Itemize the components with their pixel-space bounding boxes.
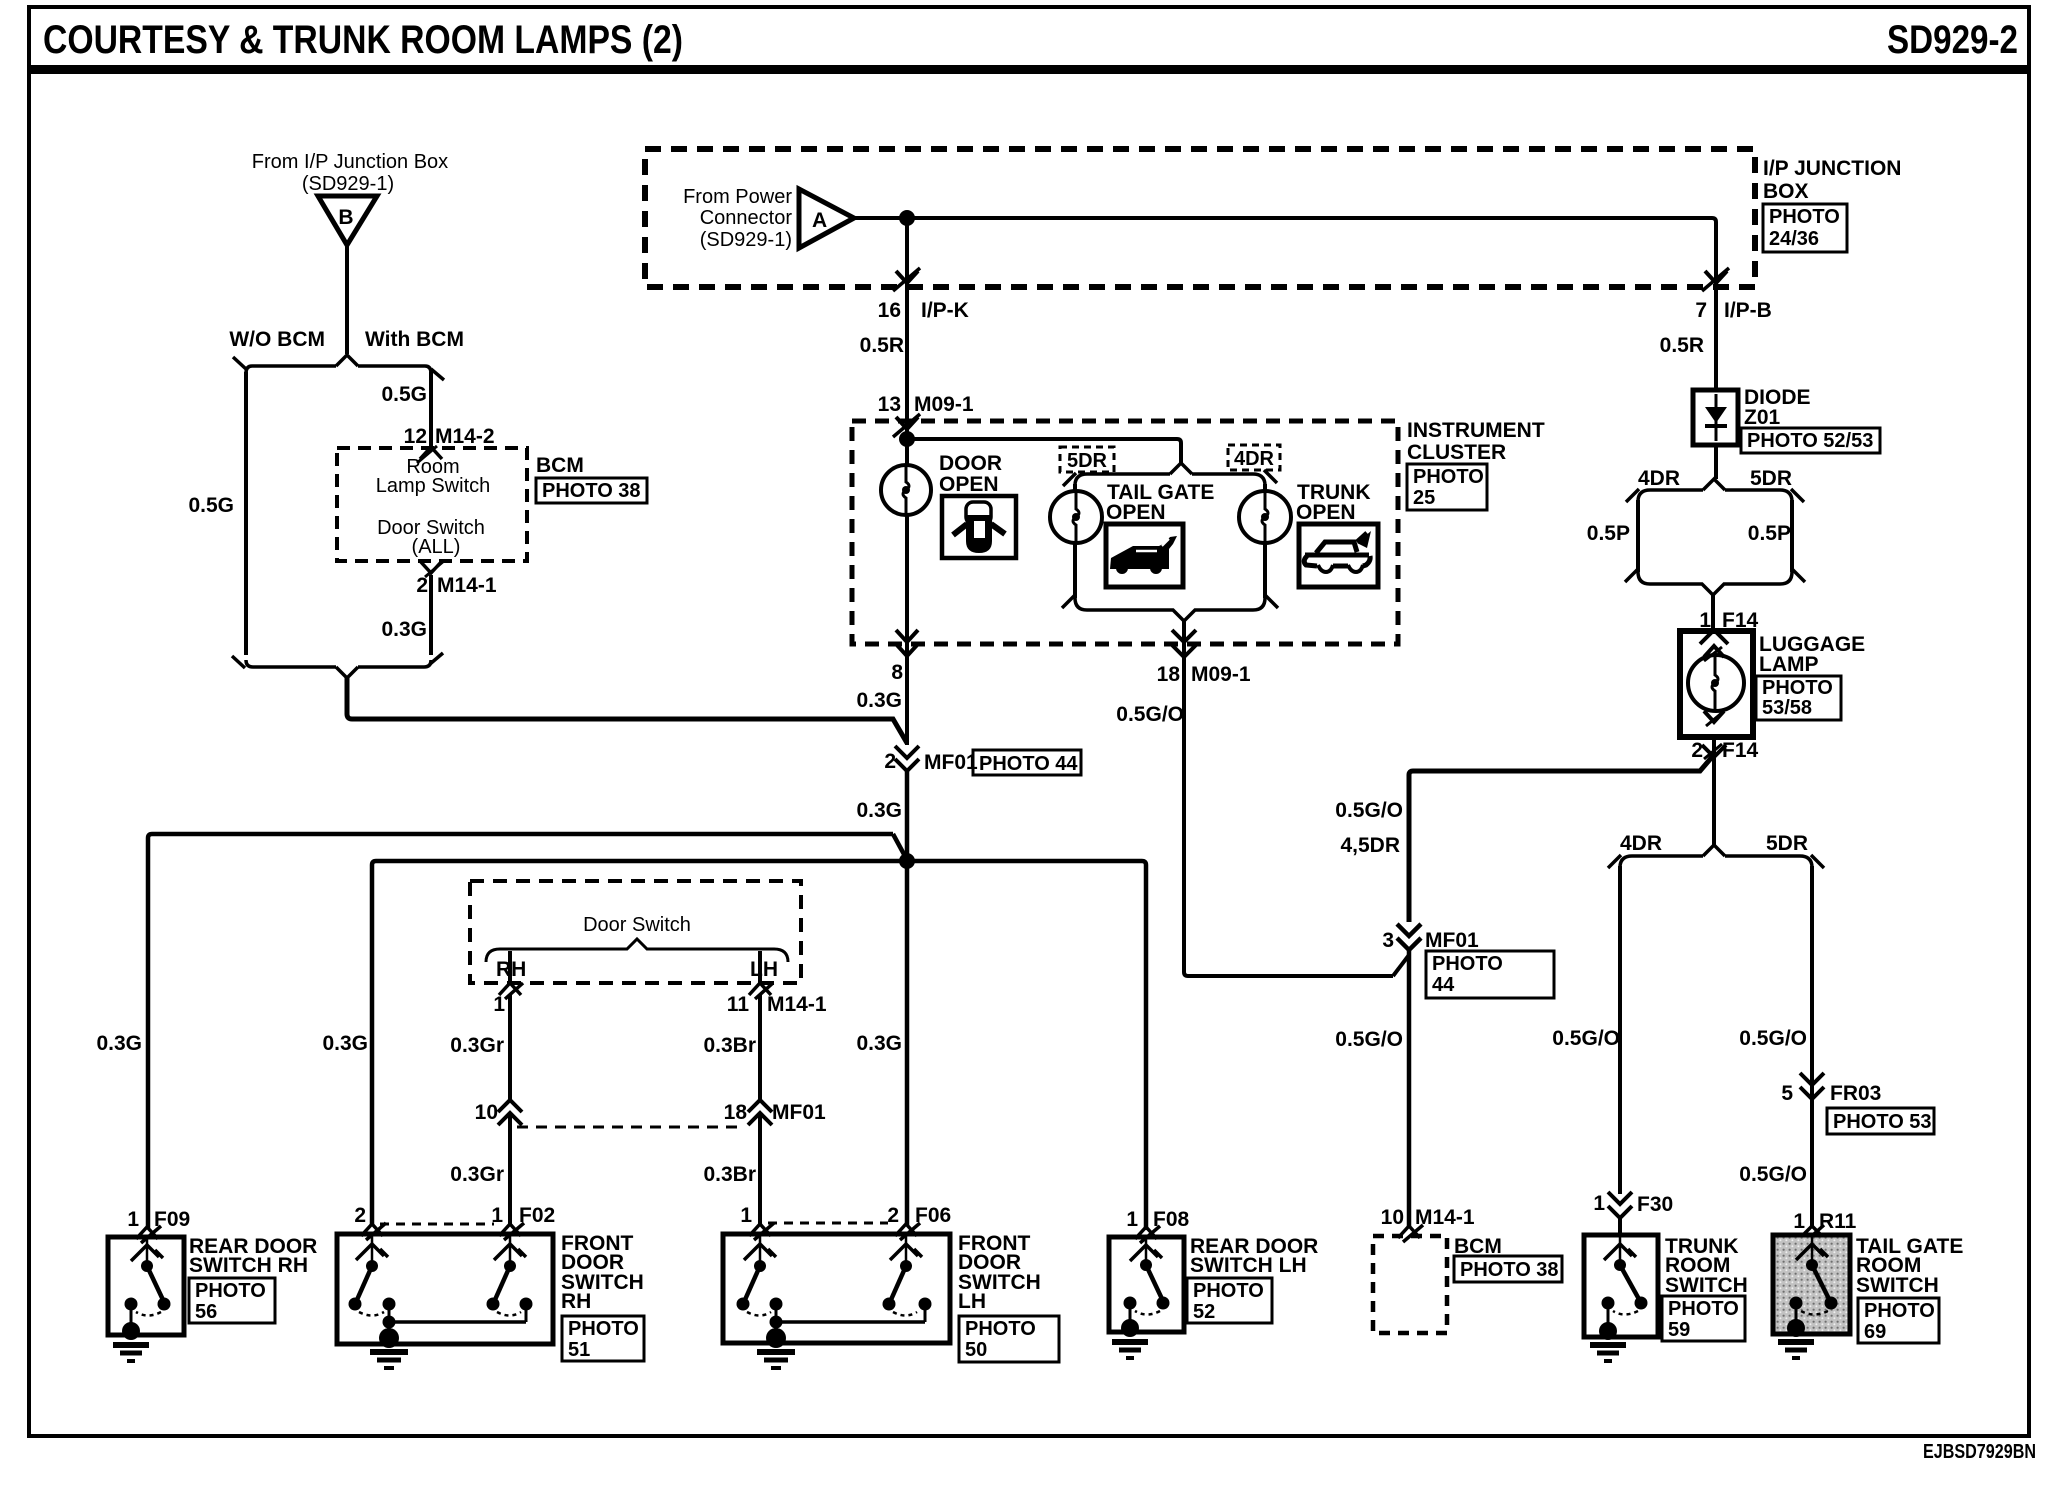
svg-text:SWITCH LH: SWITCH LH [1190,1254,1307,1277]
svg-text:I/P-K: I/P-K [921,299,969,322]
svg-text:0.5G/O: 0.5G/O [1116,703,1184,726]
svg-text:M14-1: M14-1 [437,574,497,597]
svg-text:44: 44 [1432,974,1455,996]
svg-text:I/P JUNCTION: I/P JUNCTION [1763,157,1901,180]
svg-text:0.3G: 0.3G [856,689,902,712]
svg-text:0.5P: 0.5P [1748,522,1791,545]
svg-text:PHOTO: PHOTO [1762,677,1833,699]
svg-text:DOOR: DOOR [939,452,1002,475]
svg-text:0.5R: 0.5R [860,334,904,357]
svg-text:OPEN: OPEN [1106,501,1166,524]
svg-text:LH: LH [750,958,778,981]
svg-text:BOX: BOX [1763,180,1809,203]
svg-text:OPEN: OPEN [939,473,999,496]
svg-text:(SD929-1): (SD929-1) [700,229,792,251]
svg-text:From I/P Junction Box: From I/P Junction Box [252,151,448,173]
svg-text:Lamp Switch: Lamp Switch [376,475,491,497]
svg-text:16: 16 [878,299,901,322]
svg-text:Z01: Z01 [1744,406,1781,429]
svg-text:1: 1 [493,993,505,1016]
svg-text:1: 1 [1126,1208,1138,1231]
svg-text:F30: F30 [1637,1193,1673,1216]
svg-text:(SD929-1): (SD929-1) [302,173,394,195]
svg-text:1: 1 [1593,1192,1605,1215]
svg-text:0.3Gr: 0.3Gr [450,1034,504,1057]
svg-text:0.3G: 0.3G [856,799,902,822]
svg-text:0.3G: 0.3G [322,1032,368,1055]
svg-text:25: 25 [1413,487,1435,509]
svg-text:4DR: 4DR [1638,467,1680,490]
svg-text:4,5DR: 4,5DR [1340,834,1400,857]
svg-text:0.5G: 0.5G [188,494,234,517]
svg-text:2: 2 [1691,739,1703,762]
svg-text:0.5G/O: 0.5G/O [1335,1028,1403,1051]
svg-text:PHOTO: PHOTO [1432,953,1503,975]
svg-text:5DR: 5DR [1750,467,1792,490]
svg-text:LH: LH [958,1290,986,1313]
svg-text:(ALL): (ALL) [412,536,461,558]
svg-text:2: 2 [354,1204,366,1227]
svg-text:3: 3 [1382,929,1394,952]
svg-text:52: 52 [1193,1301,1215,1323]
svg-text:12: 12 [404,425,427,448]
svg-text:PHOTO 38: PHOTO 38 [542,480,641,502]
svg-text:0.3Br: 0.3Br [703,1163,756,1186]
svg-text:I/P-B: I/P-B [1724,299,1772,322]
svg-text:5DR: 5DR [1766,832,1808,855]
svg-text:10: 10 [475,1101,498,1124]
svg-text:13: 13 [878,393,901,416]
svg-text:0.5G/O: 0.5G/O [1335,799,1403,822]
svg-text:BCM: BCM [536,454,584,477]
svg-text:50: 50 [965,1339,987,1361]
svg-text:56: 56 [195,1301,217,1323]
svg-text:A: A [812,209,827,232]
svg-text:FR03: FR03 [1830,1082,1881,1105]
svg-text:10: 10 [1381,1206,1404,1229]
svg-text:EJBSD7929BN: EJBSD7929BN [1923,1441,2036,1463]
svg-text:18: 18 [724,1101,748,1124]
svg-text:0.3G: 0.3G [381,618,427,641]
svg-text:PHOTO: PHOTO [568,1318,639,1340]
svg-text:1: 1 [740,1204,752,1227]
svg-text:69: 69 [1864,1321,1886,1343]
svg-text:SD929-2: SD929-2 [1887,18,2018,62]
svg-text:Door Switch: Door Switch [583,914,691,936]
svg-text:0.5G: 0.5G [381,383,427,406]
svg-text:0.3Gr: 0.3Gr [450,1163,504,1186]
svg-text:18: 18 [1157,663,1181,686]
svg-text:M14-1: M14-1 [767,993,827,1016]
svg-text:0.5R: 0.5R [1660,334,1704,357]
svg-text:2: 2 [416,574,428,597]
svg-text:2: 2 [884,750,896,773]
svg-text:LAMP: LAMP [1759,653,1819,676]
svg-text:R11: R11 [1819,1210,1857,1233]
svg-text:CLUSTER: CLUSTER [1407,441,1506,464]
svg-text:1: 1 [127,1208,139,1231]
svg-text:0.5P: 0.5P [1587,522,1630,545]
svg-text:4DR: 4DR [1620,832,1662,855]
svg-text:PHOTO: PHOTO [1668,1298,1739,1320]
svg-text:W/O BCM: W/O BCM [229,328,325,351]
svg-text:0.5G/O: 0.5G/O [1739,1027,1807,1050]
svg-text:PHOTO: PHOTO [965,1318,1036,1340]
svg-text:PHOTO: PHOTO [1864,1300,1935,1322]
svg-text:11: 11 [727,993,750,1016]
svg-text:M14-2: M14-2 [435,425,495,448]
svg-text:PHOTO: PHOTO [1413,466,1484,488]
svg-text:PHOTO: PHOTO [195,1280,266,1302]
svg-text:B: B [338,206,353,229]
svg-text:With BCM: With BCM [365,328,464,351]
svg-text:PHOTO 44: PHOTO 44 [979,753,1078,775]
svg-text:0.3Br: 0.3Br [703,1034,756,1057]
svg-text:0.3G: 0.3G [856,1032,902,1055]
svg-text:SWITCH: SWITCH [1856,1274,1939,1297]
svg-text:M09-1: M09-1 [914,393,974,416]
svg-text:RH: RH [561,1290,591,1313]
svg-text:INSTRUMENT: INSTRUMENT [1407,419,1545,442]
svg-text:From Power: From Power [683,186,792,208]
svg-text:0.5G/O: 0.5G/O [1552,1027,1620,1050]
svg-text:F14: F14 [1722,739,1759,762]
svg-text:PHOTO 52/53: PHOTO 52/53 [1747,430,1873,452]
svg-text:51: 51 [568,1339,590,1361]
svg-text:59: 59 [1668,1319,1690,1341]
svg-text:24/36: 24/36 [1769,228,1819,250]
svg-text:2: 2 [887,1204,899,1227]
svg-text:OPEN: OPEN [1296,501,1356,524]
svg-text:4DR: 4DR [1234,448,1275,470]
svg-text:53/58: 53/58 [1762,697,1812,719]
svg-text:PHOTO: PHOTO [1769,206,1840,228]
svg-text:MF01: MF01 [924,751,978,774]
svg-text:7: 7 [1695,299,1707,322]
svg-text:1: 1 [1793,1210,1805,1233]
svg-text:5DR: 5DR [1067,450,1108,472]
svg-text:PHOTO 38: PHOTO 38 [1460,1259,1559,1281]
svg-text:5: 5 [1781,1082,1793,1105]
svg-text:SWITCH RH: SWITCH RH [189,1254,308,1277]
svg-text:8: 8 [891,661,903,684]
svg-text:0.5G/O: 0.5G/O [1739,1163,1807,1186]
svg-text:PHOTO: PHOTO [1193,1280,1264,1302]
svg-text:SWITCH: SWITCH [1665,1274,1748,1297]
svg-text:Connector: Connector [700,207,793,229]
svg-text:MF01: MF01 [772,1101,826,1124]
svg-text:M14-1: M14-1 [1415,1206,1475,1229]
svg-text:COURTESY & TRUNK ROOM LAMPS (2: COURTESY & TRUNK ROOM LAMPS (2) [43,18,683,62]
svg-text:0.3G: 0.3G [96,1032,142,1055]
svg-text:MF01: MF01 [1425,929,1479,952]
svg-text:M09-1: M09-1 [1191,663,1251,686]
svg-text:PHOTO 53: PHOTO 53 [1833,1111,1932,1133]
